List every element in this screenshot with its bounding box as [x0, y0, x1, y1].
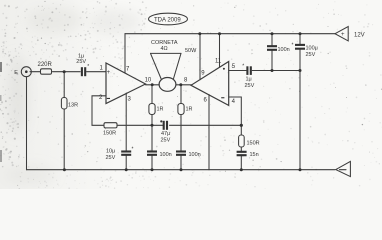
svg-text:150R: 150R [247, 141, 260, 147]
svg-text:*: * [132, 147, 134, 153]
svg-text:10: 10 [145, 78, 152, 84]
svg-text:1R: 1R [186, 107, 193, 113]
svg-text:13R: 13R [68, 103, 78, 109]
svg-text:*: * [292, 43, 294, 49]
svg-text:TDA 2009: TDA 2009 [154, 18, 181, 24]
svg-text:47μ: 47μ [161, 131, 170, 137]
svg-text:100n: 100n [278, 47, 290, 53]
svg-text:*: * [87, 64, 89, 70]
svg-text:11: 11 [215, 59, 222, 65]
svg-text:1μ: 1μ [246, 77, 252, 83]
svg-text:+: + [341, 32, 345, 38]
svg-text:100n: 100n [160, 152, 172, 158]
svg-text:220R: 220R [38, 62, 53, 68]
svg-text:100μ: 100μ [306, 46, 318, 52]
svg-text:150R: 150R [103, 131, 116, 137]
svg-text:12V: 12V [354, 33, 365, 39]
svg-text:25V: 25V [106, 155, 116, 161]
svg-text:4Ω: 4Ω [161, 46, 168, 52]
svg-text:25V: 25V [161, 138, 171, 144]
svg-text:50W: 50W [185, 48, 197, 54]
svg-text:25V: 25V [76, 59, 86, 65]
svg-text:15n: 15n [250, 152, 259, 158]
svg-text:25V: 25V [245, 83, 255, 89]
svg-text:25V: 25V [306, 52, 316, 58]
svg-text:+: + [107, 70, 111, 76]
svg-text:10μ: 10μ [106, 149, 115, 155]
svg-text:E: E [14, 70, 18, 76]
svg-text:*: * [242, 64, 244, 70]
svg-text:1R: 1R [157, 107, 164, 113]
svg-text:100n: 100n [189, 152, 201, 158]
